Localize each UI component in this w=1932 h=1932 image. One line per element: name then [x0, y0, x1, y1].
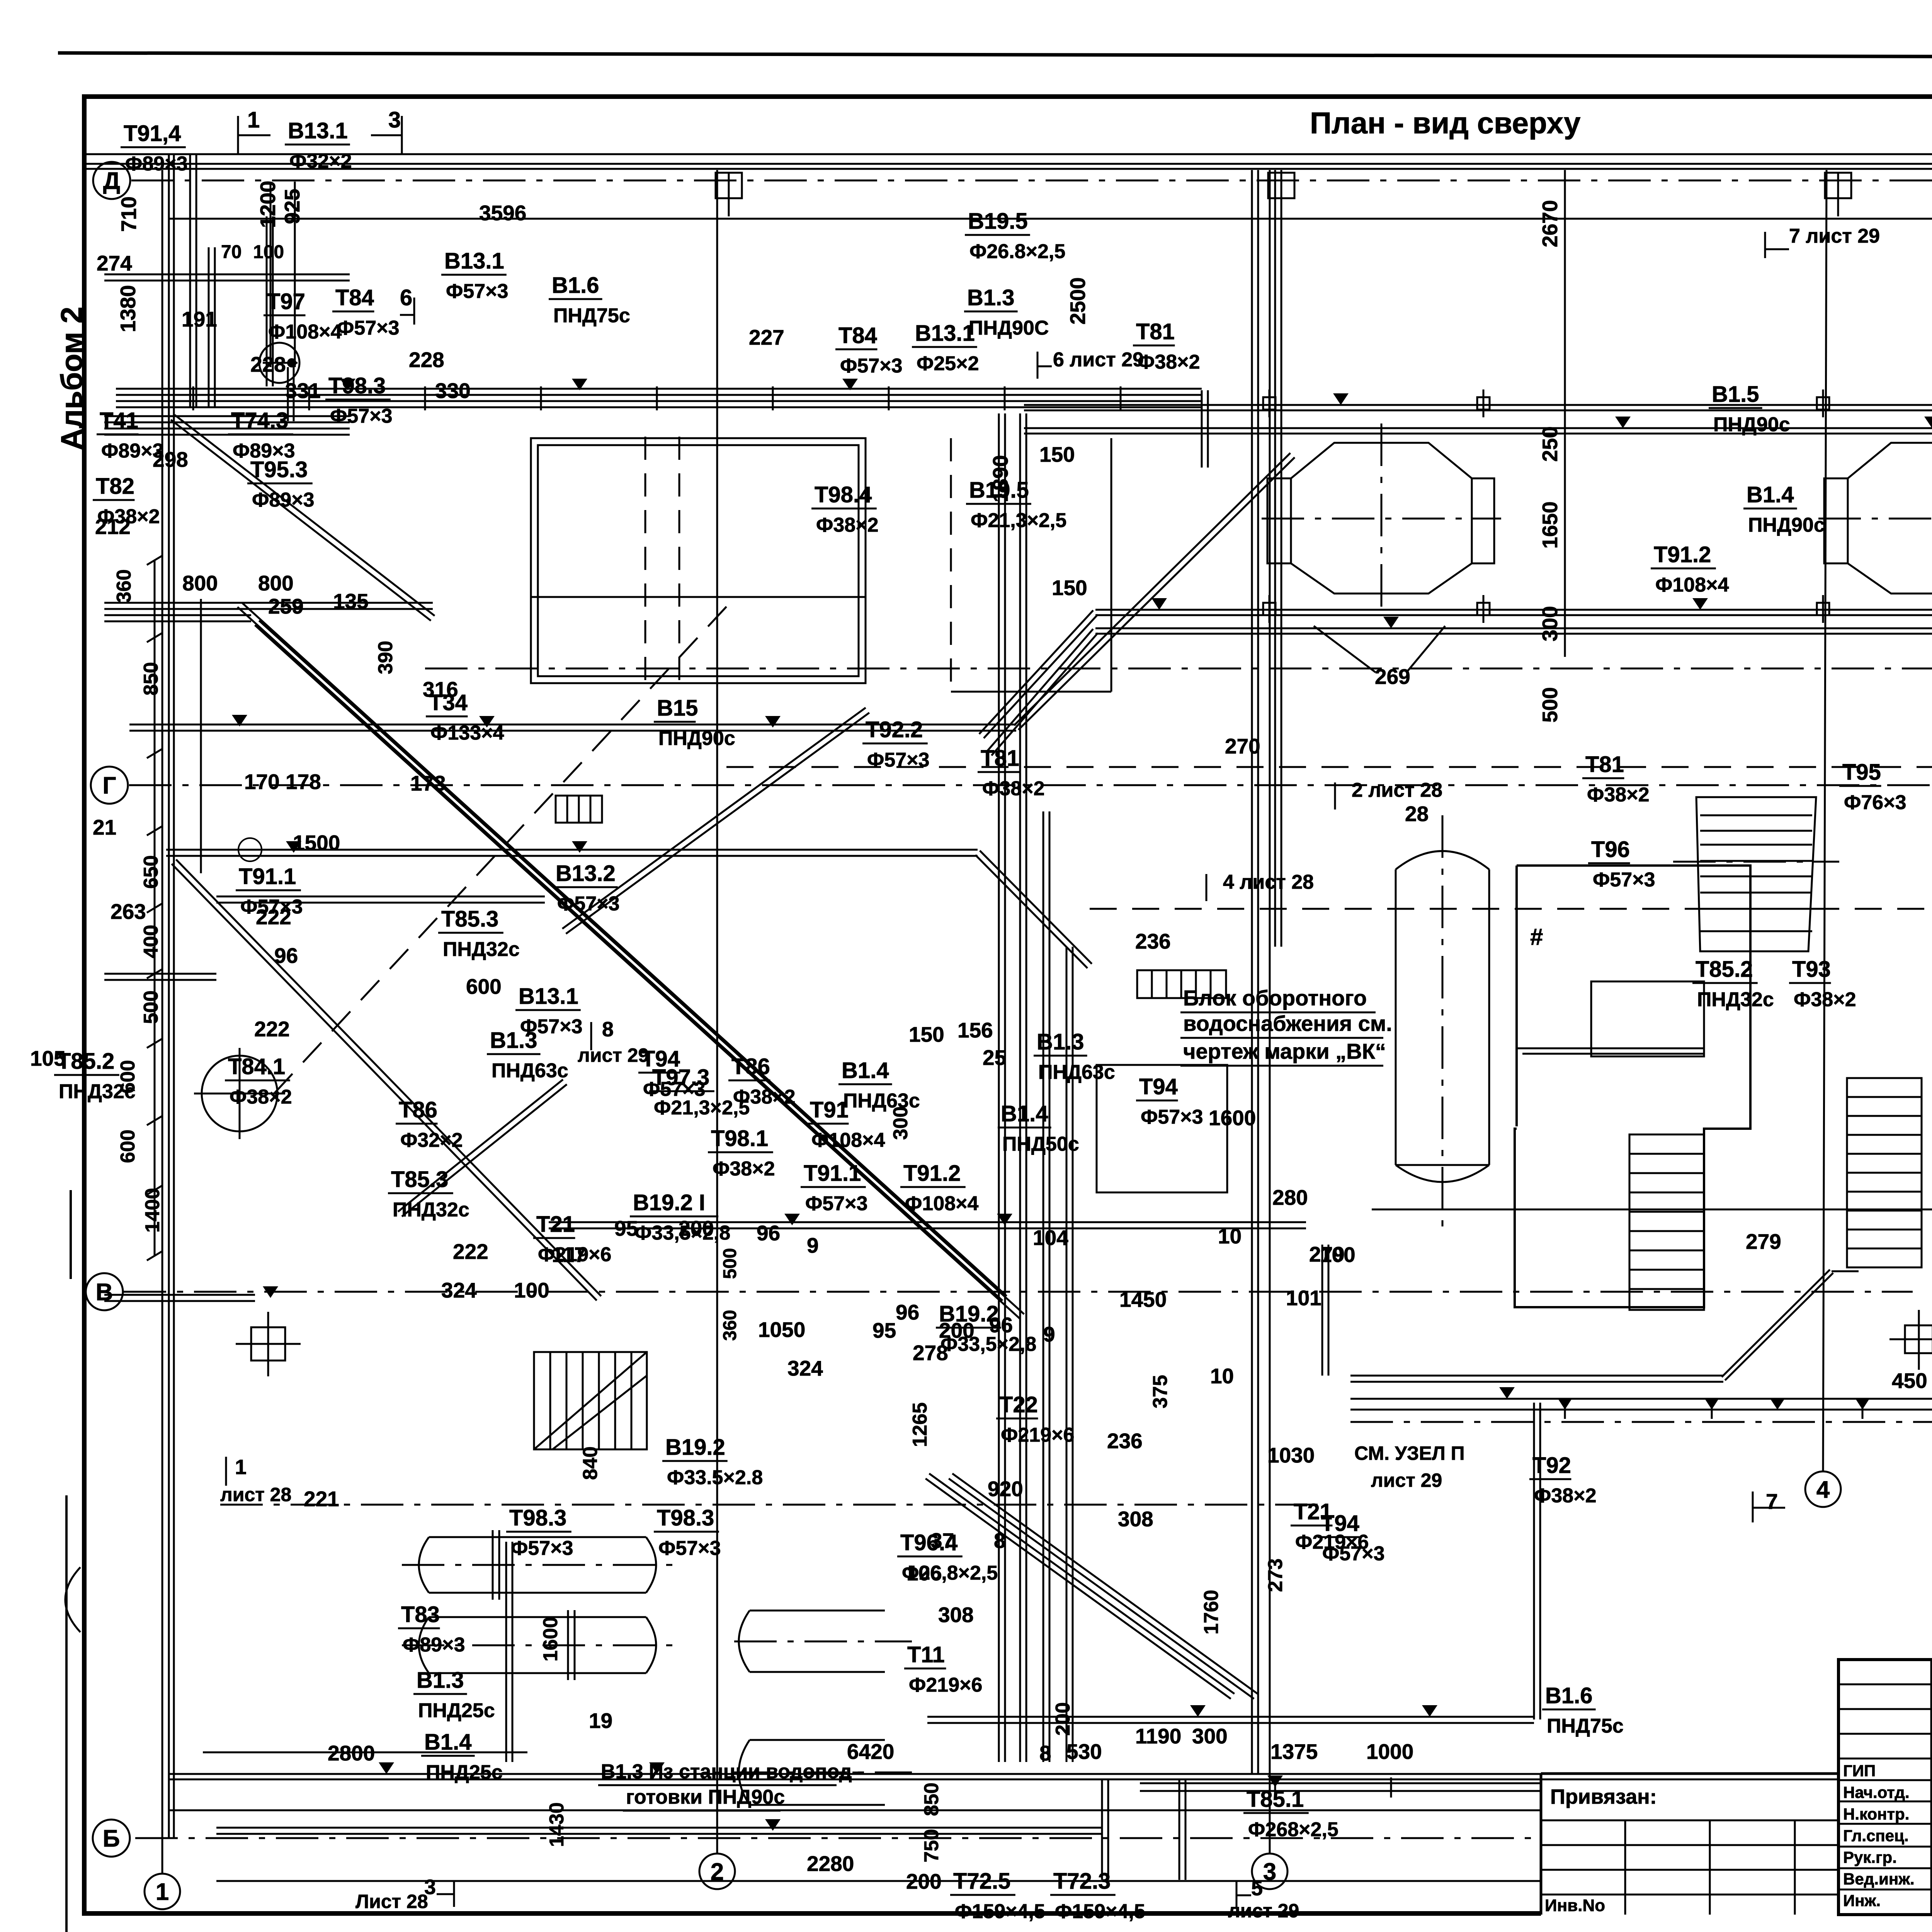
svg-text:850: 850 — [920, 1782, 943, 1816]
slash diagonal pipe — [566, 713, 869, 934]
column square V axis — [251, 1327, 285, 1361]
svg-text:Т96: Т96 — [1591, 837, 1630, 862]
left dim ticks — [147, 556, 162, 565]
svg-text:Ф219×6: Ф219×6 — [1001, 1424, 1074, 1446]
svg-text:чертеж марки „ВК“: чертеж марки „ВК“ — [1183, 1039, 1386, 1063]
svg-text:Ф26,8×2,5: Ф26,8×2,5 — [902, 1562, 998, 1584]
svg-text:В1.3 Из станции водопод-: В1.3 Из станции водопод- — [601, 1760, 859, 1783]
dim line 2800 — [203, 1752, 527, 1753]
diagonal from y2207 elbow — [975, 855, 1087, 968]
svg-text:Нач.отд.: Нач.отд. — [1843, 1783, 1910, 1801]
paper top edge line — [58, 53, 1932, 58]
riser pipes top-left — [189, 155, 191, 408]
svg-text:279: 279 — [1309, 1242, 1345, 1266]
svg-text:2: 2 — [711, 1859, 724, 1885]
supports on long pipe — [1564, 1400, 1566, 1419]
svg-text:5: 5 — [1251, 1877, 1263, 1900]
grid circle 3 — [1252, 1854, 1287, 1889]
svg-text:В1.3: В1.3 — [490, 1028, 537, 1053]
svg-text:Т94: Т94 — [641, 1046, 680, 1071]
svg-text:Ф57×3: Ф57×3 — [805, 1192, 868, 1215]
svg-text:191: 191 — [182, 307, 217, 331]
svg-text:1890: 1890 — [988, 455, 1012, 502]
svg-text:308: 308 — [1118, 1507, 1153, 1531]
left margin arc — [65, 1567, 80, 1632]
bottom long pipe — [1140, 1790, 1540, 1792]
svg-text:96: 96 — [274, 944, 298, 968]
axis V circle — [86, 1273, 123, 1310]
svg-text:2670: 2670 — [1538, 200, 1562, 247]
svg-text:170 178: 170 178 — [244, 770, 321, 794]
left pipe stub y3359 — [104, 1300, 255, 1302]
bottom wall lines — [169, 1773, 1838, 1775]
svg-text:96: 96 — [896, 1300, 919, 1324]
svg-text:ПНД50с: ПНД50с — [1002, 1133, 1079, 1155]
boiler octagon at x=5016 — [1848, 443, 1932, 594]
svg-text:331: 331 — [285, 379, 321, 403]
svg-text:В1.6: В1.6 — [1545, 1683, 1593, 1708]
svg-text:Ф57×3: Ф57×3 — [330, 405, 393, 427]
svg-text:200: 200 — [939, 1318, 975, 1342]
svg-text:500: 500 — [1538, 687, 1562, 723]
svg-text:95: 95 — [872, 1318, 896, 1342]
svg-text:Ф108×4: Ф108×4 — [268, 321, 342, 343]
svg-text:Ф89×3: Ф89×3 — [252, 489, 315, 511]
svg-text:9: 9 — [1043, 1322, 1055, 1346]
pipe elbow to diagonal — [979, 611, 1093, 734]
bottom connecting pipe — [216, 1833, 1102, 1835]
svg-text:8: 8 — [994, 1529, 1006, 1553]
svg-text:104: 104 — [1033, 1226, 1068, 1250]
boiler hanger squares — [1263, 397, 1276, 410]
svg-text:ПНД32с: ПНД32с — [1697, 988, 1774, 1011]
svg-text:Т91.2: Т91.2 — [903, 1161, 961, 1186]
svg-text:В1.3: В1.3 — [1037, 1029, 1084, 1054]
svg-text:250: 250 — [1538, 426, 1562, 462]
svg-text:Т92: Т92 — [1532, 1453, 1571, 1478]
vertical pipe bundle — [998, 413, 1000, 1762]
pipes at left y1560 — [104, 608, 433, 610]
svg-text:800: 800 — [258, 571, 294, 595]
svg-text:В13.1: В13.1 — [915, 321, 975, 346]
long diagonal pipe D1 — [238, 607, 1003, 1301]
svg-text:800: 800 — [182, 571, 218, 595]
svg-text:8: 8 — [602, 1018, 614, 1041]
svg-text:Т81: Т81 — [1136, 319, 1175, 344]
svg-text:Т98.3: Т98.3 — [509, 1505, 566, 1531]
heat exchanger HXb — [419, 1617, 656, 1673]
svg-text:В19.2: В19.2 — [665, 1435, 725, 1460]
svg-text:1: 1 — [156, 1879, 169, 1905]
svg-text:Т72.5: Т72.5 — [953, 1869, 1010, 1894]
svg-text:236: 236 — [1107, 1429, 1143, 1453]
svg-text:Ф21,3×2,5: Ф21,3×2,5 — [971, 509, 1066, 532]
stairs S1 — [1629, 1134, 1704, 1310]
svg-text:263: 263 — [111, 900, 146, 923]
svg-text:ГИП: ГИП — [1843, 1762, 1876, 1780]
svg-text:Гл.спец.: Гл.спец. — [1843, 1827, 1909, 1845]
svg-text:Инж.: Инж. — [1843, 1891, 1881, 1910]
left inner wall — [200, 599, 202, 873]
riser pair below valve — [266, 216, 268, 386]
svg-text:227: 227 — [749, 325, 784, 349]
svg-text:Т91.1: Т91.1 — [804, 1161, 861, 1186]
svg-text:Ф57×3: Ф57×3 — [840, 355, 903, 377]
svg-text:готовки ПНД90с: готовки ПНД90с — [626, 1786, 785, 1808]
support triangles — [340, 379, 355, 390]
svg-text:Ф108×4: Ф108×4 — [811, 1129, 885, 1151]
svg-text:269: 269 — [1375, 665, 1410, 689]
binding box — [1541, 1772, 1838, 1775]
svg-text:В19.2 I: В19.2 I — [633, 1190, 705, 1215]
axis D circle — [93, 162, 130, 199]
svg-text:Вед.инж.: Вед.инж. — [1843, 1870, 1915, 1888]
pipe bundle band y1006 — [116, 388, 1202, 390]
upper structural line — [169, 218, 1932, 220]
axis V line — [124, 1291, 1913, 1293]
axis B line — [135, 1837, 1540, 1839]
svg-text:Г: Г — [102, 772, 116, 799]
svg-text:Ф268×2,5: Ф268×2,5 — [1248, 1818, 1338, 1841]
left wall double line — [168, 154, 170, 1838]
svg-text:4 лист 28: 4 лист 28 — [1223, 871, 1314, 893]
svg-text:Т94: Т94 — [1139, 1074, 1178, 1099]
svg-text:В13.2: В13.2 — [556, 861, 616, 886]
axis B circle — [93, 1820, 130, 1857]
svg-text:Ф25×2: Ф25×2 — [917, 352, 979, 375]
svg-text:лист 29: лист 29 — [1371, 1469, 1442, 1491]
svg-text:278: 278 — [913, 1341, 948, 1365]
svg-text:В1.4: В1.4 — [1747, 482, 1794, 507]
svg-text:6420: 6420 — [847, 1740, 894, 1764]
svg-text:221: 221 — [304, 1487, 339, 1511]
svg-text:лист 29: лист 29 — [1228, 1900, 1299, 1922]
svg-text:Т82: Т82 — [96, 474, 134, 499]
svg-text:Т41: Т41 — [100, 408, 138, 433]
svg-text:Блок оборотного: Блок оборотного — [1183, 986, 1367, 1010]
caption underline structural line — [84, 153, 1932, 155]
svg-text:450: 450 — [1892, 1369, 1927, 1393]
svg-text:ПНД90с: ПНД90с — [1748, 514, 1825, 536]
svg-text:ПНД63с: ПНД63с — [1038, 1061, 1115, 1083]
svg-text:600: 600 — [117, 1129, 139, 1163]
svg-text:Инв.No: Инв.No — [1545, 1896, 1605, 1915]
svg-text:600: 600 — [466, 975, 502, 998]
svg-text:222: 222 — [453, 1240, 488, 1264]
svg-text:Ф57×3: Ф57×3 — [1593, 869, 1655, 891]
svg-text:360: 360 — [113, 569, 135, 603]
svg-text:21: 21 — [93, 815, 116, 839]
top band ladder ticks — [192, 386, 194, 410]
svg-text:Т91,4: Т91,4 — [124, 121, 181, 146]
svg-text:В1.4: В1.4 — [842, 1058, 889, 1083]
svg-text:Ф38×2: Ф38×2 — [1534, 1485, 1597, 1507]
svg-text:Т85.2: Т85.2 — [1696, 957, 1753, 982]
svg-text:173: 173 — [410, 771, 446, 795]
pipe run y2328 — [216, 902, 545, 904]
svg-text:70: 70 — [221, 242, 241, 262]
pipe run y3568 to stairs — [1350, 1381, 1723, 1383]
svg-text:1050: 1050 — [758, 1318, 805, 1342]
svg-text:750: 750 — [920, 1829, 943, 1862]
svg-text:156: 156 — [957, 1018, 993, 1042]
svg-text:1: 1 — [235, 1456, 247, 1479]
svg-text:Рук.гр.: Рук.гр. — [1843, 1848, 1897, 1866]
svg-text:228: 228 — [409, 348, 444, 372]
pipe bottom horizontal B1.6 — [927, 1716, 1534, 1718]
grid circle 4 — [1805, 1471, 1841, 1507]
hatched platform small — [556, 796, 602, 823]
svg-text:280: 280 — [1272, 1185, 1308, 1209]
svg-text:300: 300 — [1192, 1724, 1228, 1748]
svg-text:1190: 1190 — [1135, 1724, 1181, 1748]
svg-text:Т22: Т22 — [999, 1392, 1038, 1417]
svg-text:План - вид сверху: План - вид сверху — [1310, 106, 1581, 140]
signature table — [1838, 1660, 1932, 1915]
svg-text:3: 3 — [388, 107, 401, 133]
svg-text:Т95.3: Т95.3 — [250, 457, 308, 482]
svg-text:Ф32×2: Ф32×2 — [400, 1129, 463, 1151]
svg-text:В13.1: В13.1 — [519, 984, 578, 1009]
axis G line — [129, 784, 1932, 786]
grid3 pipe pair — [1251, 170, 1253, 1774]
svg-text:ПНД32с: ПНД32с — [443, 938, 520, 961]
svg-text:Т98.3: Т98.3 — [328, 373, 386, 398]
svg-text:ПНД32с: ПНД32с — [393, 1199, 469, 1221]
svg-text:Ф76×3: Ф76×3 — [1844, 791, 1906, 814]
svg-text:1600: 1600 — [1209, 1106, 1256, 1130]
svg-text:330: 330 — [435, 379, 471, 403]
svg-text:Ф57×3: Ф57×3 — [658, 1537, 721, 1560]
svg-text:2500: 2500 — [1066, 277, 1090, 325]
svg-text:96: 96 — [757, 1221, 780, 1245]
svg-text:Ф219×6: Ф219×6 — [1295, 1531, 1369, 1553]
svg-text:#: # — [1530, 924, 1543, 950]
svg-text:В1.3: В1.3 — [417, 1668, 464, 1693]
svg-text:6: 6 — [400, 285, 412, 310]
column square with cross — [1905, 1325, 1932, 1353]
svg-text:Ф26.8×2,5: Ф26.8×2,5 — [969, 240, 1065, 263]
svg-text:270: 270 — [1225, 734, 1260, 758]
svg-text:Т86: Т86 — [399, 1097, 437, 1122]
svg-text:925: 925 — [280, 189, 304, 224]
svg-text:В1.3: В1.3 — [967, 285, 1015, 310]
svg-text:Т72.3: Т72.3 — [1053, 1869, 1111, 1894]
svg-text:101: 101 — [1286, 1286, 1321, 1310]
dim line vertical — [1564, 170, 1566, 657]
svg-text:150: 150 — [1039, 442, 1075, 466]
svg-text:Т84.1: Т84.1 — [228, 1054, 285, 1079]
top wall double line — [84, 163, 1932, 165]
stair room bottom line — [1515, 1306, 1704, 1308]
pipe T91.2 F108x4 — [1095, 609, 1932, 611]
pipe elbow down — [1321, 1245, 1323, 1376]
svg-text:3596: 3596 — [479, 201, 526, 225]
top wall columns — [716, 173, 742, 198]
svg-text:В1.4: В1.4 — [1001, 1101, 1048, 1126]
equipment block upper middle — [531, 438, 866, 683]
svg-text:28: 28 — [1405, 802, 1429, 826]
svg-text:Ф38×2: Ф38×2 — [1587, 784, 1650, 806]
svg-text:360: 360 — [720, 1310, 740, 1341]
svg-text:Ф89×3: Ф89×3 — [403, 1634, 465, 1656]
grid line 4 — [1823, 170, 1827, 1471]
diagonal pipe D6 — [925, 1478, 1231, 1699]
pump circle left — [202, 1056, 277, 1131]
svg-text:Ф33,5×2,8: Ф33,5×2,8 — [634, 1222, 730, 1244]
svg-text:1265: 1265 — [909, 1402, 931, 1447]
grid circle 2 — [699, 1854, 735, 1889]
pipe lower second — [1095, 628, 1932, 629]
svg-text:1000: 1000 — [1366, 1740, 1413, 1764]
svg-text:530: 530 — [1066, 1740, 1102, 1764]
svg-text:Ф38×2: Ф38×2 — [733, 1086, 796, 1108]
axis D line — [131, 180, 1932, 182]
svg-text:300: 300 — [889, 1106, 912, 1140]
svg-text:279: 279 — [1746, 1230, 1781, 1253]
stairs S2 — [1847, 1078, 1922, 1267]
svg-text:Т91: Т91 — [810, 1097, 849, 1122]
svg-text:9: 9 — [807, 1233, 819, 1257]
svg-text:500: 500 — [140, 990, 162, 1024]
svg-text:96: 96 — [989, 1313, 1013, 1337]
svg-text:25: 25 — [983, 1046, 1006, 1070]
svg-text:920: 920 — [988, 1477, 1023, 1501]
mid building line — [1372, 1209, 1932, 1211]
long diagonal pipe D2 — [172, 864, 597, 1301]
svg-text:В1.6: В1.6 — [552, 273, 599, 298]
svg-text:200: 200 — [906, 1869, 942, 1893]
svg-text:3: 3 — [1263, 1859, 1276, 1885]
svg-text:1375: 1375 — [1270, 1740, 1318, 1764]
svg-text:ПНД25с: ПНД25с — [418, 1699, 495, 1722]
svg-text:Т93: Т93 — [1792, 957, 1831, 982]
svg-text:Т84: Т84 — [335, 285, 374, 310]
svg-text:В1.5: В1.5 — [1712, 382, 1759, 407]
svg-text:Ф57×3: Ф57×3 — [511, 1537, 573, 1560]
svg-text:Т96.4: Т96.4 — [900, 1530, 957, 1555]
svg-text:1600: 1600 — [539, 1617, 562, 1662]
svg-text:Т85.2: Т85.2 — [57, 1049, 114, 1074]
svg-text:В13.1: В13.1 — [288, 118, 348, 143]
svg-text:Ф219×6: Ф219×6 — [909, 1674, 982, 1696]
grid circle 1 — [145, 1874, 180, 1909]
heat exchanger HXd — [739, 1740, 885, 1805]
svg-text:Т86: Т86 — [731, 1054, 770, 1079]
bottom pipe hangers — [1274, 1777, 1276, 1798]
svg-text:Т34: Т34 — [429, 690, 468, 715]
riser T72.3 — [1179, 1779, 1180, 1880]
chain line lower left — [220, 1504, 1325, 1506]
svg-text:840: 840 — [579, 1446, 602, 1480]
svg-text:Ф133×4: Ф133×4 — [430, 722, 504, 744]
heat exchanger HXa — [419, 1537, 656, 1593]
svg-text:1030: 1030 — [1267, 1443, 1315, 1467]
short diagonal top-left — [171, 420, 431, 621]
svg-text:Б: Б — [103, 1825, 120, 1852]
svg-text:390: 390 — [374, 641, 397, 674]
svg-text:259: 259 — [268, 594, 304, 618]
svg-text:Ф108×4: Ф108×4 — [905, 1192, 979, 1215]
axis G circle — [91, 767, 128, 804]
hatched platform mid — [1137, 970, 1226, 998]
grid line 3 — [1269, 170, 1271, 1854]
svg-text:Ф57×3: Ф57×3 — [446, 280, 509, 303]
svg-text:Т91.2: Т91.2 — [1654, 542, 1711, 567]
svg-text:лист 28: лист 28 — [220, 1484, 291, 1505]
svg-text:1450: 1450 — [1119, 1287, 1167, 1311]
svg-text:135: 135 — [333, 589, 369, 613]
pipe B1.5 PND90s — [1024, 404, 1932, 406]
dashed diagonal — [270, 607, 726, 1097]
svg-text:150: 150 — [909, 1022, 944, 1046]
diagonal pipe to grid3 junction — [1019, 457, 1295, 730]
svg-text:В1.4: В1.4 — [424, 1730, 472, 1755]
svg-text:222: 222 — [254, 1017, 290, 1041]
svg-text:Т92.2: Т92.2 — [866, 717, 923, 742]
svg-text:2800: 2800 — [328, 1741, 375, 1765]
dim verticals 1200 925 — [270, 182, 272, 367]
svg-text:2 лист 28: 2 лист 28 — [1352, 779, 1442, 801]
svg-text:19: 19 — [589, 1709, 612, 1733]
svg-text:Альбом 2: Альбом 2 — [54, 307, 88, 450]
paper left edge — [65, 1495, 68, 1932]
left pipe stub y2528 — [104, 979, 216, 981]
svg-text:Ф38×2: Ф38×2 — [1138, 351, 1200, 373]
svg-text:Т98.1: Т98.1 — [711, 1126, 768, 1151]
svg-text:Т85.1: Т85.1 — [1247, 1787, 1304, 1812]
svg-text:10: 10 — [1218, 1224, 1242, 1248]
riser T72.5 — [1101, 1779, 1103, 1880]
title block background mask — [1541, 1774, 1932, 1932]
long chain line mid — [425, 668, 1932, 670]
svg-text:1380: 1380 — [116, 285, 140, 332]
svg-text:1500: 1500 — [293, 831, 340, 855]
svg-text:1200: 1200 — [256, 181, 280, 228]
svg-text:710: 710 — [117, 196, 141, 232]
pipe vertical near room1 — [1533, 1403, 1535, 1719]
svg-text:228: 228 — [250, 352, 286, 376]
svg-text:водоснабжения см.: водоснабжения см. — [1183, 1011, 1392, 1036]
svg-text:Т74.3: Т74.3 — [231, 408, 288, 433]
svg-text:В13.1: В13.1 — [444, 248, 504, 274]
svg-text:375: 375 — [1149, 1375, 1172, 1408]
svg-text:8: 8 — [1039, 1741, 1051, 1765]
svg-text:1: 1 — [247, 107, 260, 133]
svg-text:Ф33.5×2.8: Ф33.5×2.8 — [667, 1466, 763, 1489]
svg-text:100: 100 — [253, 242, 284, 262]
svg-text:Т97: Т97 — [267, 289, 305, 314]
svg-text:324: 324 — [441, 1278, 477, 1302]
svg-text:1760: 1760 — [1200, 1590, 1223, 1634]
svg-text:100: 100 — [514, 1278, 549, 1302]
svg-text:300: 300 — [1538, 606, 1562, 641]
svg-text:274: 274 — [97, 251, 132, 275]
pipe run G axis — [129, 730, 1016, 732]
svg-text:ПНД90с: ПНД90с — [658, 727, 735, 750]
grid line 1 — [162, 170, 163, 1874]
svg-text:1430: 1430 — [546, 1802, 568, 1847]
svg-text:СМ. УЗЕЛ П: СМ. УЗЕЛ П — [1354, 1442, 1465, 1464]
svg-text:7: 7 — [1766, 1489, 1778, 1514]
svg-text:Т85.3: Т85.3 — [441, 906, 498, 932]
svg-text:Т21: Т21 — [1294, 1499, 1332, 1524]
svg-text:Ф57×3: Ф57×3 — [867, 749, 930, 771]
svg-text:10: 10 — [1210, 1364, 1234, 1388]
grid line 2 — [716, 170, 718, 1854]
svg-text:4: 4 — [1816, 1476, 1830, 1503]
svg-text:Т85.3: Т85.3 — [391, 1167, 448, 1192]
